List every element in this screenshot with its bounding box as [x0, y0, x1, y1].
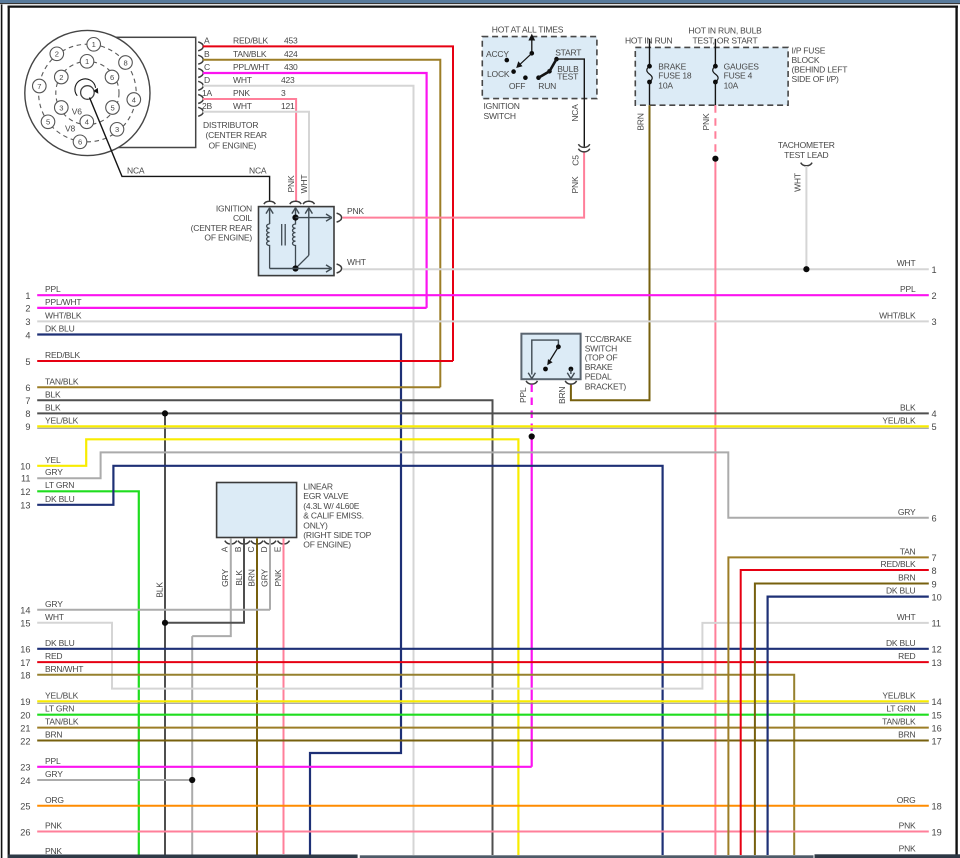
- svg-text:15: 15: [20, 619, 30, 629]
- coil PNK output line with arrow: [296, 217, 331, 219]
- svg-text:TEST, OR START: TEST, OR START: [693, 35, 758, 45]
- BULB TEST contact dot: [547, 69, 552, 74]
- svg-text:5: 5: [46, 118, 50, 127]
- wire PPL/WHT 430 from pin C: [203, 73, 427, 308]
- svg-text:WHT: WHT: [45, 612, 64, 622]
- svg-text:B: B: [233, 546, 243, 552]
- svg-text:WHT/BLK: WHT/BLK: [879, 310, 916, 320]
- PPL dashed wire from TCC switch: [531, 385, 533, 437]
- svg-text:I/P FUSE: I/P FUSE: [792, 45, 826, 55]
- svg-text:1: 1: [25, 291, 30, 301]
- svg-text:BLK: BLK: [155, 582, 165, 598]
- svg-text:PPL/WHT: PPL/WHT: [45, 297, 81, 307]
- coil diagonal from WHT leg to bottom junction: [296, 255, 309, 268]
- ACCY contact dot: [505, 58, 510, 63]
- NCA wire distributor rotor to ignition coil: [90, 98, 270, 201]
- RUN contact dot: [536, 75, 541, 80]
- OFF contact dot: [523, 75, 528, 80]
- row 15 wire WHT with jog to right margin: [37, 623, 929, 689]
- svg-text:BLK: BLK: [45, 389, 61, 399]
- svg-text:YEL/BLK: YEL/BLK: [882, 690, 916, 700]
- pin 2B connector arc: [198, 107, 203, 116]
- switch pivot dot: [530, 51, 535, 56]
- svg-text:5: 5: [25, 357, 30, 367]
- GRY wire EGR pin A to gray riser: [192, 538, 231, 636]
- svg-text:26: 26: [20, 827, 30, 837]
- row 10 wire YEL with jog and drop at x=518.4: [37, 439, 518, 855]
- svg-text:20: 20: [20, 711, 30, 721]
- svg-text:16: 16: [20, 645, 30, 655]
- pin A connector arc: [198, 42, 203, 51]
- svg-text:430: 430: [284, 62, 298, 72]
- coil core lines: [281, 224, 283, 246]
- top steel-blue page bar: [0, 0, 960, 3]
- svg-text:START: START: [555, 48, 581, 58]
- right row 10 wire DK BLU with drop: [768, 597, 929, 855]
- svg-text:YEL/BLK: YEL/BLK: [45, 690, 79, 700]
- svg-text:LT GRN: LT GRN: [45, 480, 74, 490]
- PNK wire coil to C5 connector: [343, 152, 585, 218]
- svg-text:LT GRN: LT GRN: [886, 704, 915, 714]
- svg-text:8: 8: [932, 566, 937, 576]
- svg-text:24: 24: [20, 776, 30, 786]
- svg-text:14: 14: [20, 606, 30, 616]
- svg-text:TEST: TEST: [557, 72, 578, 82]
- svg-text:PPL: PPL: [518, 387, 528, 403]
- svg-text:BLK: BLK: [900, 402, 916, 412]
- WHT wire coil to right margin (line 1): [343, 268, 929, 270]
- outer ring terminal 7: [33, 79, 47, 93]
- svg-text:3: 3: [25, 317, 30, 327]
- bottom page-break bar left segment: [8, 855, 358, 858]
- TCC switch internal feed path: [532, 340, 559, 374]
- svg-text:16: 16: [932, 723, 942, 733]
- TCC right contact dot (BRN): [569, 367, 574, 372]
- wire TAN/BLK 424 from pin B: [203, 60, 440, 388]
- svg-text:RED/BLK: RED/BLK: [881, 559, 917, 569]
- svg-text:7: 7: [25, 396, 30, 406]
- junction dot PPL splice: [529, 433, 535, 439]
- svg-text:(CENTER REAR: (CENTER REAR: [191, 223, 252, 233]
- svg-text:TAN: TAN: [900, 546, 916, 556]
- pin B connector arc: [198, 55, 203, 64]
- svg-text:TAN/BLK: TAN/BLK: [45, 376, 79, 386]
- svg-text:WHT: WHT: [793, 173, 803, 192]
- svg-text:BRN: BRN: [898, 730, 915, 740]
- ignition switch dashed box: [482, 37, 597, 99]
- svg-text:PNK: PNK: [701, 113, 711, 130]
- svg-text:GRY: GRY: [220, 569, 230, 587]
- svg-text:OF ENGINE): OF ENGINE): [209, 140, 257, 150]
- coil bottom junction dot (WHT tap): [292, 265, 298, 271]
- svg-text:(BEHIND LEFT: (BEHIND LEFT: [792, 65, 848, 75]
- row 24 wire GRY to EGR pin A riser: [37, 779, 192, 781]
- TCC switch arm with arrowhead: [550, 347, 559, 361]
- row 19 wire YEL/BLK full width: [37, 700, 929, 702]
- pin C connector arc: [198, 69, 203, 78]
- svg-text:9: 9: [932, 579, 937, 589]
- page frame border: [8, 5, 959, 7]
- svg-text:BRN: BRN: [636, 113, 646, 130]
- svg-text:5: 5: [932, 422, 937, 432]
- svg-text:PNK: PNK: [899, 821, 916, 831]
- inner ring terminal 6: [105, 70, 119, 84]
- svg-text:YEL: YEL: [45, 455, 61, 465]
- pin 1A connector arc: [198, 95, 203, 104]
- svg-text:BRN/WHT: BRN/WHT: [45, 664, 83, 674]
- svg-text:2: 2: [59, 73, 63, 82]
- I/P fuse block dashed box: [635, 47, 788, 105]
- svg-text:WHT: WHT: [897, 258, 916, 268]
- row 9 wire YEL/BLK full width: [37, 425, 929, 427]
- svg-text:GRY: GRY: [45, 599, 63, 609]
- svg-text:12: 12: [932, 645, 942, 655]
- row 17 wire RED full width: [37, 661, 929, 663]
- right row 7 wire TAN with drop: [728, 557, 928, 855]
- wire RED/BLK 453 from pin A: [203, 46, 453, 361]
- row 2 wire PPL/WHT to distributor C: [37, 307, 426, 309]
- coil interior entry arrow 1 (NCA): [269, 209, 271, 224]
- svg-text:WHT: WHT: [299, 175, 309, 194]
- row 16 wire DK BLU full width: [37, 648, 929, 650]
- svg-text:RUN: RUN: [538, 81, 556, 91]
- svg-text:A: A: [204, 36, 210, 46]
- svg-text:NCA: NCA: [249, 166, 267, 176]
- svg-text:21: 21: [20, 723, 30, 733]
- wire WHT 121 from pin 2B: [203, 112, 309, 202]
- svg-text:PPL: PPL: [45, 284, 61, 294]
- svg-text:10A: 10A: [658, 80, 673, 90]
- svg-text:13: 13: [20, 501, 30, 511]
- svg-text:PNK: PNK: [273, 569, 283, 586]
- svg-text:2: 2: [55, 50, 59, 59]
- row 20 wire LT GRN full width: [37, 714, 929, 716]
- svg-text:BLOCK: BLOCK: [792, 55, 820, 65]
- svg-text:19: 19: [20, 697, 30, 707]
- svg-text:121: 121: [281, 101, 295, 111]
- svg-text:PPL/WHT: PPL/WHT: [233, 62, 269, 72]
- svg-text:PNK: PNK: [570, 176, 580, 193]
- svg-text:NCA: NCA: [127, 166, 145, 176]
- svg-text:ORG: ORG: [897, 795, 916, 805]
- WHT tachometer lead wire: [805, 166, 807, 269]
- junction dot tachometer lead x WHT line 1: [803, 266, 809, 272]
- svg-text:BRN: BRN: [45, 730, 62, 740]
- svg-text:D: D: [259, 546, 269, 552]
- svg-text:11: 11: [932, 619, 942, 629]
- row 3 wire WHT/BLK: [37, 320, 929, 322]
- svg-text:D: D: [204, 75, 210, 85]
- svg-text:PNK: PNK: [899, 843, 916, 853]
- TCC pivot contact dot: [556, 344, 561, 349]
- switch arm toward LOCK with arrowhead: [520, 53, 532, 65]
- svg-text:423: 423: [281, 75, 295, 85]
- svg-text:8: 8: [123, 58, 127, 67]
- svg-text:BLK: BLK: [45, 402, 61, 412]
- TCC right contact stem with exit arrow: [570, 369, 572, 374]
- svg-text:3: 3: [281, 88, 286, 98]
- row 13 wire DK BLU with jog and drop at x=662.6: [37, 466, 662, 855]
- svg-text:BRN: BRN: [898, 573, 915, 583]
- svg-text:IGNITION: IGNITION: [484, 101, 520, 111]
- svg-text:19: 19: [932, 827, 942, 837]
- BRN wire EGR pin C down to bottom: [256, 538, 258, 855]
- svg-text:C: C: [204, 62, 210, 72]
- svg-text:WHT: WHT: [347, 257, 366, 267]
- svg-text:HOT IN RUN: HOT IN RUN: [625, 35, 672, 45]
- svg-text:15: 15: [932, 711, 942, 721]
- ignition coil box: [259, 207, 335, 276]
- svg-text:E: E: [272, 546, 282, 552]
- row 25 wire ORG full width: [37, 805, 929, 807]
- svg-text:14: 14: [932, 697, 942, 707]
- svg-text:453: 453: [284, 36, 298, 46]
- svg-text:DK BLU: DK BLU: [45, 638, 75, 648]
- svg-text:DK BLU: DK BLU: [45, 494, 75, 504]
- svg-text:HOT AT ALL TIMES: HOT AT ALL TIMES: [492, 25, 564, 35]
- svg-text:22: 22: [20, 736, 30, 746]
- outer ring terminal 2: [50, 47, 64, 61]
- inner ring terminal 3: [55, 101, 69, 115]
- svg-text:PNK: PNK: [45, 846, 62, 856]
- svg-text:& CALIF EMISS.: & CALIF EMISS.: [303, 511, 364, 521]
- BLK wire EGR pin B to black riser: [165, 538, 244, 622]
- svg-text:18: 18: [932, 802, 942, 812]
- svg-text:TAN/BLK: TAN/BLK: [233, 49, 267, 59]
- brake fuse feed lead: [649, 39, 651, 66]
- row 7 wire BLK with drop at x=492.5: [37, 400, 492, 855]
- svg-text:1: 1: [85, 57, 89, 66]
- outer ring terminal 1: [87, 38, 101, 52]
- BRN wire brake fuse down to TCC switch: [571, 105, 650, 400]
- svg-text:PPL: PPL: [45, 756, 61, 766]
- svg-text:PNK: PNK: [286, 175, 296, 192]
- svg-text:6: 6: [110, 73, 114, 82]
- svg-text:TEST LEAD: TEST LEAD: [784, 150, 828, 160]
- svg-text:PNK: PNK: [233, 88, 250, 98]
- svg-text:ONLY): ONLY): [303, 520, 328, 530]
- wire PNK 3 from pin 1A: [203, 99, 296, 202]
- EGR pin D connector arc: [264, 541, 276, 544]
- svg-text:YEL/BLK: YEL/BLK: [45, 415, 79, 425]
- svg-text:C: C: [246, 546, 256, 552]
- C5 connector arcs: [578, 144, 589, 147]
- svg-text:DK BLU: DK BLU: [886, 586, 916, 596]
- coil NCA entry connector arc: [264, 201, 275, 204]
- BLK riser from row 8 junction down: [164, 413, 166, 855]
- svg-text:OF ENGINE): OF ENGINE): [204, 232, 252, 242]
- svg-text:5: 5: [110, 103, 114, 112]
- svg-text:OF ENGINE): OF ENGINE): [303, 540, 351, 550]
- svg-text:DK BLU: DK BLU: [45, 324, 75, 334]
- EGR valve box: [217, 483, 297, 538]
- row 11 wire GRY with jogs to right margin: [37, 452, 929, 517]
- svg-text:PNK: PNK: [45, 821, 62, 831]
- svg-text:WHT: WHT: [233, 75, 252, 85]
- ignition switch feed arrow: [531, 37, 533, 54]
- coil WHT output connector arc: [337, 264, 342, 273]
- svg-text:IGNITION: IGNITION: [216, 204, 252, 214]
- inner ring terminal 4: [80, 115, 94, 129]
- outer ring terminal 6: [73, 135, 87, 149]
- NCA wire from START to C5: [557, 59, 585, 147]
- svg-text:9: 9: [25, 422, 30, 432]
- svg-text:2: 2: [25, 304, 30, 314]
- svg-text:DK BLU: DK BLU: [886, 638, 916, 648]
- svg-text:424: 424: [284, 49, 298, 59]
- svg-text:RED/BLK: RED/BLK: [233, 36, 269, 46]
- svg-text:10A: 10A: [724, 80, 739, 90]
- TCC PPL pin connector arc: [526, 381, 537, 384]
- outer ring terminal 8: [119, 56, 133, 70]
- right row 8 wire RED/BLK with drop: [741, 570, 929, 855]
- svg-text:PEDAL: PEDAL: [585, 372, 612, 382]
- outer ring terminal 5: [41, 115, 55, 129]
- PNK wire EGR pin E down to bottom: [283, 538, 285, 854]
- svg-text:10: 10: [20, 462, 30, 472]
- coil PNK output connector arc: [337, 213, 342, 222]
- svg-text:FUSE 18: FUSE 18: [658, 70, 692, 80]
- svg-text:LOCK: LOCK: [487, 69, 510, 79]
- svg-text:PPL: PPL: [900, 284, 916, 294]
- svg-text:3: 3: [59, 103, 63, 112]
- svg-text:(CENTER REAR: (CENTER REAR: [206, 130, 267, 140]
- svg-text:1A: 1A: [202, 88, 213, 98]
- svg-text:A: A: [220, 546, 230, 552]
- svg-text:(RIGHT SIDE TOP: (RIGHT SIDE TOP: [303, 530, 371, 540]
- row 8 wire BLK full width: [37, 412, 929, 414]
- svg-text:COIL: COIL: [233, 213, 253, 223]
- right row 9 wire BRN with drop: [755, 584, 929, 856]
- svg-text:LT GRN: LT GRN: [45, 704, 74, 714]
- EGR pin E connector arc: [278, 541, 290, 544]
- svg-text:ORG: ORG: [45, 795, 64, 805]
- svg-text:1: 1: [932, 265, 937, 275]
- distributor connector body (rectangle): [100, 37, 196, 147]
- tachometer connector arc: [801, 163, 812, 166]
- distributor inner dashed circle (V6 ring): [56, 61, 119, 124]
- svg-text:TAN/BLK: TAN/BLK: [882, 717, 916, 727]
- distributor cap circle: [25, 30, 150, 155]
- switch position polyline START-BULB-RUN: [539, 59, 557, 78]
- PPL solid wire down to row 23: [531, 437, 533, 767]
- svg-text:V8: V8: [65, 124, 75, 134]
- row 1 wire PPL: [37, 294, 929, 296]
- wire WHT 423 from pin D: [203, 86, 414, 855]
- svg-text:C5: C5: [570, 155, 580, 166]
- svg-text:FUSE 4: FUSE 4: [724, 70, 753, 80]
- junction dot row 8 x BLK riser: [162, 410, 168, 416]
- svg-text:10: 10: [932, 592, 942, 602]
- svg-text:(4.3L W/ 4L60E: (4.3L W/ 4L60E: [303, 501, 359, 511]
- svg-text:3: 3: [115, 125, 119, 134]
- svg-text:6: 6: [25, 383, 30, 393]
- row 4 wire DK BLU with jog to bottom: [37, 335, 401, 856]
- svg-text:BRACKET): BRACKET): [585, 381, 627, 391]
- distributor rotor center circle: [81, 86, 95, 100]
- row 14 wire GRY to EGR pin D: [37, 609, 270, 611]
- svg-text:GRY: GRY: [45, 769, 63, 779]
- svg-text:SIDE OF I/P): SIDE OF I/P): [792, 74, 840, 84]
- row 12 wire LT GRN with drop at x=137.5: [37, 491, 139, 855]
- TCC exit arrow left (PPL): [528, 373, 535, 379]
- svg-text:8: 8: [25, 409, 30, 419]
- svg-text:ACCY: ACCY: [486, 49, 509, 59]
- svg-text:7: 7: [37, 82, 41, 91]
- svg-text:1: 1: [92, 40, 96, 49]
- junction dot PNK splice: [712, 156, 718, 162]
- svg-text:3: 3: [932, 317, 937, 327]
- svg-text:RED: RED: [45, 651, 62, 661]
- inner ring terminal 1: [80, 55, 94, 69]
- EGR pin C connector arc: [251, 541, 263, 544]
- coil junction dot upper (PNK tap): [292, 215, 298, 221]
- svg-text:DISTRIBUTOR: DISTRIBUTOR: [203, 120, 258, 130]
- TCC lower-left contact dot: [543, 367, 548, 372]
- svg-text:SWITCH: SWITCH: [484, 111, 516, 121]
- svg-text:4: 4: [132, 95, 136, 104]
- svg-text:23: 23: [20, 763, 30, 773]
- svg-text:25: 25: [20, 802, 30, 812]
- svg-text:BRN: BRN: [557, 387, 567, 404]
- junction dot GRY riser x row 24: [189, 777, 195, 783]
- svg-text:4: 4: [85, 118, 89, 127]
- row 23 wire PPL to TCC riser: [37, 766, 532, 768]
- GRY riser down to bottom: [191, 636, 193, 855]
- svg-text:LINEAR: LINEAR: [303, 482, 333, 492]
- EGR pin A connector arc: [225, 541, 237, 544]
- coil interior entry arrow 2 (PNK): [295, 209, 297, 218]
- coil secondary winding: [293, 218, 296, 269]
- inner ring terminal 2: [55, 70, 69, 84]
- svg-text:4: 4: [25, 330, 30, 340]
- svg-text:PNK: PNK: [347, 206, 364, 216]
- svg-text:BLK: BLK: [234, 570, 244, 586]
- TCC BRN pin connector arc: [565, 381, 576, 384]
- svg-text:17: 17: [932, 736, 942, 746]
- TCC/brake switch box: [521, 334, 580, 380]
- svg-text:EGR VALVE: EGR VALVE: [303, 491, 349, 501]
- svg-text:GRY: GRY: [260, 569, 270, 587]
- coil primary winding: [267, 224, 270, 269]
- pin D connector arc: [198, 81, 203, 90]
- START contact dot: [554, 57, 559, 62]
- bottom page-break bar middle segment: [360, 855, 814, 858]
- brake fuse 18 element: [647, 64, 652, 69]
- coil WHT entry connector arc: [303, 201, 314, 204]
- row 21 wire TAN/BLK full width: [37, 727, 929, 729]
- svg-text:13: 13: [932, 658, 942, 668]
- coil WHT output line with arrow: [270, 268, 330, 270]
- gauges fuse 4 element: [713, 64, 718, 69]
- svg-text:4: 4: [932, 409, 937, 419]
- svg-text:WHT: WHT: [897, 612, 916, 622]
- EGR pin B connector arc: [238, 541, 250, 544]
- svg-text:TAN/BLK: TAN/BLK: [45, 717, 79, 727]
- svg-text:6: 6: [932, 514, 937, 524]
- coil PNK entry connector arc: [290, 201, 301, 204]
- bottom page-break bar right segment: [815, 854, 960, 858]
- svg-text:OFF: OFF: [509, 81, 525, 91]
- svg-text:BRN: BRN: [247, 569, 257, 586]
- row 5 wire RED/BLK to distributor A: [37, 360, 453, 362]
- row 22 wire BRN full width: [37, 740, 929, 742]
- row 18 wire BRN/WHT with drop at x=794.2: [37, 675, 794, 855]
- outer ring terminal 4: [127, 93, 141, 107]
- inner ring terminal 5: [106, 101, 120, 115]
- svg-text:GRY: GRY: [45, 467, 63, 477]
- svg-text:WHT/BLK: WHT/BLK: [45, 310, 82, 320]
